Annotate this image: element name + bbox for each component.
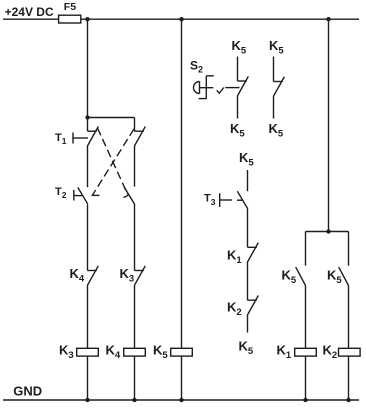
svg-text:K2: K2	[227, 300, 242, 319]
svg-text:K5: K5	[269, 38, 284, 57]
contact K5 (second contact)	[274, 77, 285, 96]
node: rail junction right branch	[326, 17, 330, 21]
wire: K3 contact to coil K4	[134, 285, 136, 348]
node label K5 (top of NC contact)	[232, 38, 247, 57]
node label K5 (bottom of NC contact)	[230, 121, 245, 140]
svg-text:+24V DC: +24V DC	[5, 5, 54, 19]
svg-text:K4: K4	[106, 342, 121, 361]
latching symbol (check mark) of S2	[217, 88, 224, 94]
svg-text:S2: S2	[190, 58, 203, 74]
svg-text:K5: K5	[282, 267, 297, 286]
wire: stub below K2 contact	[247, 315, 249, 333]
svg-text:T1: T1	[55, 132, 67, 146]
node: GND junction K5	[179, 398, 183, 402]
fuse F5	[59, 1, 81, 23]
wire: K5 coil branch from rail	[181, 19, 183, 348]
wire: stub below K5 NC contact	[237, 96, 239, 119]
mechanical linkage T1-right to T2-left (dashed)	[92, 129, 135, 195]
mechanical linkage T1-left to T2-right (dashed)	[98, 128, 128, 194]
wire: stub below K5 NO contact	[273, 96, 275, 119]
switch actuator T3	[204, 193, 243, 207]
wire: stub to K5 contact (K2 branch)	[348, 232, 350, 266]
svg-text:K3: K3	[120, 266, 135, 285]
svg-text:K2: K2	[323, 343, 338, 362]
node: right branch split	[326, 229, 330, 233]
relay coil K1	[277, 343, 317, 362]
wire: stub to T1 right contact	[134, 118, 136, 132]
svg-text:K5: K5	[153, 342, 168, 361]
wire: coil K5 to GND	[181, 356, 183, 400]
node: GND junction K1	[303, 398, 307, 402]
wire: T1 left to T2 left	[87, 146, 89, 188]
wire: right branch from rail	[328, 19, 330, 231]
wire: column1 from rail to split node	[87, 19, 89, 117]
wire: T2 left to K4 contact	[87, 205, 89, 271]
relay coil K4	[106, 342, 146, 361]
switch actuator T2	[55, 186, 83, 201]
wire: T3 to K1 contact	[247, 209, 249, 248]
contact K4 (NC)	[70, 266, 99, 285]
wire: coil K2 to GND	[348, 356, 350, 400]
contact T1 right (NC)	[135, 127, 146, 146]
svg-text:K5: K5	[239, 338, 254, 357]
contact K3 (NC)	[120, 266, 146, 285]
wire: coil K4 to GND	[134, 356, 136, 400]
wire: stub to K5 contact (K1 branch)	[305, 232, 307, 266]
contact K5 (NO mirrored, K2 branch)	[327, 267, 349, 286]
contact T2 right (NO, mirrored)	[124, 187, 135, 204]
node: GND junction K4	[132, 398, 136, 402]
contact K5 (NC, emergency stop chain)	[238, 76, 249, 96]
contact K2 (NC)	[227, 296, 258, 319]
node label K5 (bottom of T3 chain)	[239, 338, 254, 357]
node: split junction	[85, 115, 89, 119]
wire: K5 contact to coil K2	[348, 286, 350, 349]
svg-text:K5: K5	[269, 121, 284, 140]
wire: coil K3 to GND	[87, 356, 89, 400]
wire: T2 right to K3 contact	[134, 204, 136, 271]
relay coil K5	[153, 342, 192, 361]
relay coil K3	[59, 342, 98, 361]
wire: right branch horizontal	[306, 231, 349, 233]
GND rail	[3, 384, 359, 401]
wire: stub above T3 contact	[247, 170, 249, 191]
node label K5 (top of T3 chain)	[239, 150, 254, 169]
wire: coil K1 to GND	[305, 356, 307, 400]
wire: K4 contact to coil K3	[87, 285, 89, 348]
wire: stub above K5 NO contact	[273, 57, 275, 82]
node: GND junction K3	[85, 398, 89, 402]
wire: T1 right to T2 right	[134, 146, 136, 187]
svg-text:K1: K1	[227, 247, 242, 266]
svg-text:F5: F5	[64, 1, 76, 13]
relay coil K2	[323, 343, 361, 362]
contact K1 (NC)	[227, 243, 258, 266]
node: GND junction K2	[346, 398, 350, 402]
emergency stop button S2	[190, 58, 214, 99]
svg-text:K5: K5	[239, 150, 254, 169]
contact T2 left (NO, mirrored)	[78, 187, 88, 204]
contact T3 (NO, mirrored)	[237, 191, 247, 208]
wire: K1 contact to K2 contact	[247, 262, 249, 300]
svg-text:K5: K5	[232, 38, 247, 57]
actuator line S2 to K5 NC contact	[225, 87, 239, 89]
node: rail junction after fuse	[85, 17, 89, 21]
node label K5 (bottom of NO contact)	[269, 121, 284, 140]
svg-text:GND: GND	[13, 384, 42, 399]
wire: stub above K5 NC contact	[237, 57, 239, 82]
svg-text:K5: K5	[230, 121, 245, 140]
contact T1 left (NC)	[88, 127, 99, 146]
svg-text:K4: K4	[70, 266, 85, 285]
contact K5 (NO mirrored, K1 branch)	[282, 267, 306, 286]
wire: stub to T1 left contact	[87, 118, 89, 132]
svg-text:T2: T2	[55, 186, 67, 200]
+24V DC supply rail	[3, 5, 359, 19]
node: rail junction branch K5 coil	[179, 17, 183, 21]
wire: K5 contact to coil K1	[305, 286, 307, 349]
svg-text:K1: K1	[277, 343, 292, 362]
switch actuator T1	[55, 132, 88, 146]
wire: split node to column2	[88, 117, 135, 119]
node label K5 (top of NO contact)	[269, 38, 284, 57]
svg-text:T3: T3	[204, 193, 216, 207]
svg-text:K3: K3	[59, 342, 74, 361]
